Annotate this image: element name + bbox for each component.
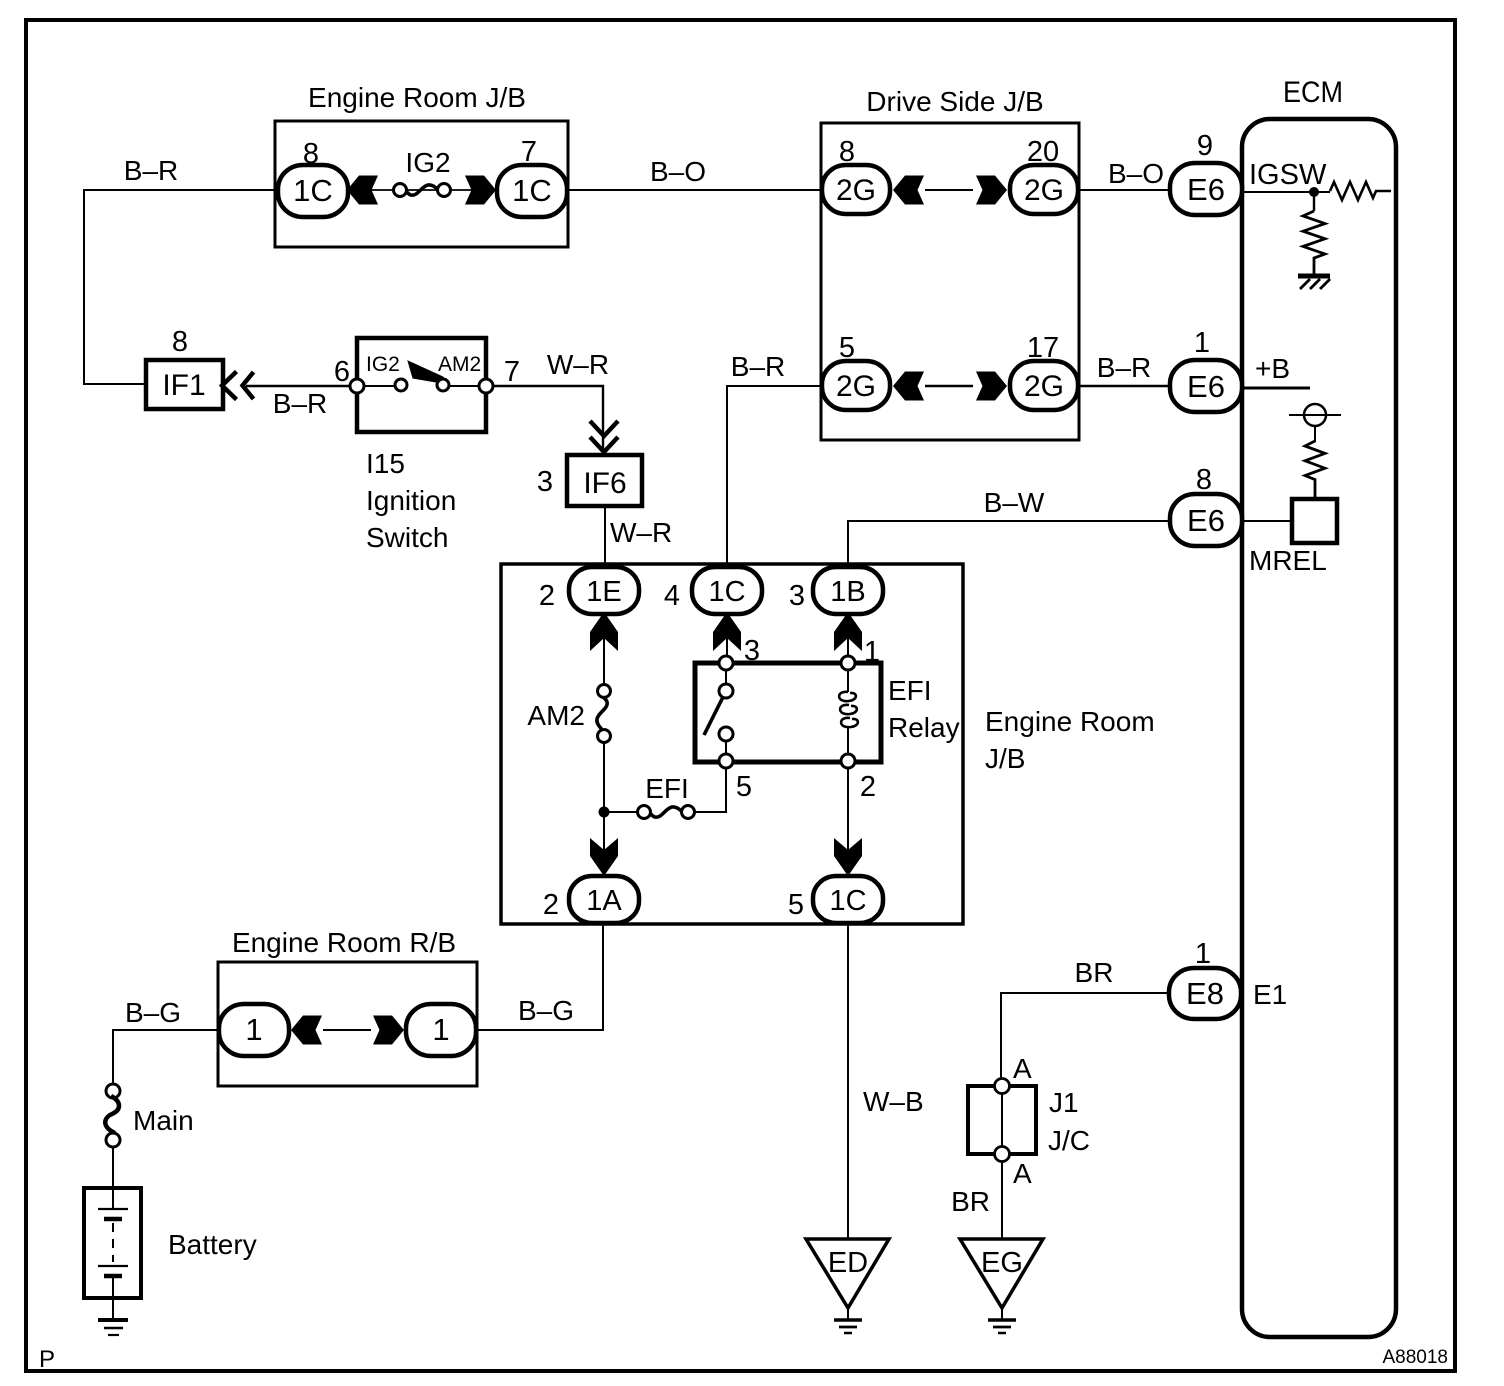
svg-text:1C: 1C bbox=[512, 173, 552, 208]
wire Main to battery bbox=[112, 1147, 114, 1188]
arrow up under 1C bbox=[713, 612, 741, 651]
svg-text:8: 8 bbox=[172, 326, 188, 358]
svg-text:Engine Room J/B: Engine Room J/B bbox=[308, 82, 526, 113]
svg-text:IF1: IF1 bbox=[162, 369, 205, 402]
ignition switch I15 box bbox=[357, 338, 486, 432]
svg-text:2: 2 bbox=[860, 771, 876, 803]
svg-text:5: 5 bbox=[788, 889, 804, 921]
Drive Side J/B box bbox=[821, 86, 1079, 440]
svg-text:8: 8 bbox=[839, 136, 855, 168]
battery bbox=[84, 1188, 257, 1298]
svg-text:E6: E6 bbox=[1187, 172, 1225, 207]
svg-text:EG: EG bbox=[981, 1247, 1023, 1279]
svg-text:1: 1 bbox=[864, 636, 880, 668]
MREL vertical resistor bbox=[1305, 426, 1325, 500]
ground hatched bbox=[1298, 276, 1330, 289]
relay pin 3 bbox=[719, 635, 760, 670]
svg-text:I15: I15 bbox=[366, 448, 405, 479]
corner label P bbox=[39, 1346, 55, 1373]
svg-text:Relay: Relay bbox=[888, 712, 960, 743]
connector oval 2G pin 5 bbox=[822, 332, 890, 410]
switch pin 7 bbox=[479, 356, 520, 393]
svg-text:MREL: MREL bbox=[1249, 545, 1327, 576]
wire W-B from 1C(5) to ED bbox=[848, 923, 924, 1238]
svg-text:+B: +B bbox=[1255, 353, 1290, 384]
wire B-R to E6(1) bbox=[1078, 352, 1172, 386]
svg-text:AM2: AM2 bbox=[527, 700, 585, 731]
svg-text:IG2: IG2 bbox=[405, 147, 450, 178]
svg-text:W–B: W–B bbox=[863, 1086, 924, 1117]
arrow up under 1E bbox=[590, 612, 618, 651]
svg-text:5: 5 bbox=[736, 771, 752, 803]
svg-text:IF6: IF6 bbox=[583, 467, 626, 500]
svg-text:1C: 1C bbox=[293, 173, 333, 208]
svg-text:1B: 1B bbox=[830, 576, 865, 608]
arrow right bbox=[465, 176, 496, 205]
connector IF6 pin 3 bbox=[537, 455, 642, 506]
arrow left bbox=[893, 176, 924, 205]
connector oval E6 pin 8 bbox=[1170, 464, 1242, 546]
connector oval 2G pin 8 bbox=[822, 136, 890, 214]
wire 1B down to relay pin 1 bbox=[847, 614, 849, 656]
svg-text:E1: E1 bbox=[1253, 979, 1287, 1010]
svg-text:Main: Main bbox=[133, 1105, 194, 1136]
connector oval 2G pin 20 bbox=[1010, 136, 1078, 214]
Engine Room J/B center box bbox=[501, 564, 1155, 924]
svg-text:1C: 1C bbox=[708, 576, 745, 608]
arrow left bbox=[291, 1016, 322, 1045]
svg-text:B–R: B–R bbox=[124, 155, 178, 186]
svg-text:2G: 2G bbox=[1024, 174, 1064, 207]
switch blade bbox=[408, 361, 447, 384]
connector oval 1A pin 2 bbox=[543, 876, 639, 923]
svg-text:3: 3 bbox=[537, 466, 553, 498]
Engine Room R/B box bbox=[218, 927, 477, 1086]
svg-text:A: A bbox=[1013, 1158, 1032, 1189]
svg-text:1E: 1E bbox=[586, 576, 621, 608]
svg-text:2: 2 bbox=[543, 889, 559, 921]
E1 label bbox=[1253, 979, 1287, 1010]
wire W-R below IF6 bbox=[605, 505, 672, 566]
svg-text:Ignition: Ignition bbox=[366, 485, 456, 516]
svg-text:ECM: ECM bbox=[1283, 76, 1343, 109]
connector oval 2G pin 17 bbox=[1010, 332, 1078, 410]
svg-text:6: 6 bbox=[334, 356, 350, 388]
svg-text:Battery: Battery bbox=[168, 1229, 257, 1260]
svg-text:W–R: W–R bbox=[610, 517, 672, 548]
battery ground bbox=[98, 1298, 128, 1335]
wire between arrows bottom bbox=[925, 385, 973, 387]
wire pin5 to EFI fuse bbox=[695, 768, 726, 812]
ground triangle EG bbox=[960, 1239, 1043, 1333]
arrow right bbox=[976, 176, 1007, 205]
svg-text:B–R: B–R bbox=[1097, 352, 1151, 383]
svg-text:B–O: B–O bbox=[650, 156, 706, 187]
wire between arrows top bbox=[925, 189, 973, 191]
svg-text:W–R: W–R bbox=[547, 349, 609, 380]
MREL driver box bbox=[1292, 499, 1337, 543]
relay pin 5 bbox=[719, 754, 752, 803]
IGSW label bbox=[1249, 159, 1327, 191]
wire B-W bbox=[848, 487, 1170, 564]
svg-text:A88018: A88018 bbox=[1382, 1347, 1448, 1368]
svg-text:9: 9 bbox=[1197, 130, 1213, 162]
IG2 contact bbox=[364, 353, 407, 391]
label B-R bbox=[124, 155, 178, 186]
relay coil bbox=[839, 670, 858, 754]
svg-text:J/B: J/B bbox=[985, 743, 1025, 774]
svg-text:8: 8 bbox=[303, 138, 319, 170]
svg-text:E6: E6 bbox=[1187, 503, 1225, 538]
svg-text:7: 7 bbox=[504, 356, 520, 388]
svg-text:1: 1 bbox=[1194, 327, 1210, 359]
relay switch contact top bbox=[719, 670, 733, 698]
svg-text:ED: ED bbox=[828, 1247, 868, 1279]
svg-text:IGSW: IGSW bbox=[1249, 159, 1327, 191]
AM2 contact bbox=[437, 353, 481, 391]
MREL label bbox=[1249, 545, 1327, 576]
wire 1C(4) down to relay pin 3 bbox=[726, 614, 728, 656]
wire W-R bbox=[493, 349, 609, 455]
svg-text:2G: 2G bbox=[836, 370, 876, 403]
svg-text:EFI: EFI bbox=[645, 773, 689, 804]
svg-text:3: 3 bbox=[789, 580, 805, 612]
arrow left bottom bbox=[893, 372, 924, 401]
wire B-G right bbox=[477, 924, 603, 1030]
svg-text:B–R: B–R bbox=[273, 388, 327, 419]
wire junction to EFI fuse bbox=[604, 811, 637, 813]
svg-text:B–R: B–R bbox=[731, 351, 785, 382]
svg-text:5: 5 bbox=[839, 332, 855, 364]
svg-text:B–O: B–O bbox=[1108, 158, 1164, 189]
svg-text:1A: 1A bbox=[586, 885, 622, 917]
arrow left bbox=[347, 176, 378, 205]
connector oval 1 right bbox=[406, 1004, 476, 1056]
wire E6(8) to MREL box bbox=[1242, 520, 1292, 522]
chevrons left bbox=[222, 372, 254, 400]
label I15 Ignition Switch bbox=[366, 448, 456, 553]
svg-text:EFI: EFI bbox=[888, 675, 932, 706]
svg-text:1C: 1C bbox=[829, 885, 866, 917]
svg-text:B–G: B–G bbox=[125, 997, 181, 1028]
svg-text:2: 2 bbox=[539, 580, 555, 612]
relay switch blade bbox=[704, 697, 723, 735]
svg-text:B–G: B–G bbox=[518, 995, 574, 1026]
wire B-G left bbox=[113, 997, 218, 1084]
wire B-R up from 1C(4) bbox=[727, 351, 822, 564]
connector IF1 pin 8 bbox=[146, 326, 223, 409]
MREL switch circle bbox=[1289, 404, 1341, 426]
EFI relay box bbox=[695, 663, 960, 762]
arrow up under 1B bbox=[834, 612, 862, 651]
connector oval 1C pin 4 bbox=[664, 567, 762, 614]
connector oval E6 pin 9 bbox=[1170, 130, 1242, 215]
wire BR from E8 bbox=[1001, 957, 1169, 1078]
fuse EFI bbox=[638, 773, 695, 819]
svg-text:20: 20 bbox=[1027, 136, 1059, 168]
svg-text:Drive Side J/B: Drive Side J/B bbox=[866, 86, 1043, 117]
svg-text:BR: BR bbox=[951, 1186, 990, 1217]
connector oval 1C pin 5 bbox=[788, 876, 883, 923]
relay switch contact bottom bbox=[719, 727, 733, 753]
svg-text:7: 7 bbox=[521, 136, 537, 168]
wire relay pin2 down bbox=[847, 768, 849, 876]
wire B-O to E6 bbox=[1078, 158, 1172, 190]
resistor horizontal bbox=[1330, 182, 1391, 200]
svg-text:8: 8 bbox=[1196, 464, 1212, 496]
junction dot bbox=[599, 807, 610, 818]
relay pin 2 bbox=[841, 754, 876, 803]
+B label and wire bbox=[1242, 353, 1310, 388]
switch pin 6 bbox=[334, 356, 364, 393]
chevrons down bbox=[590, 421, 618, 452]
connector oval 1 left bbox=[219, 1004, 289, 1056]
connector oval 1B pin 3 bbox=[789, 567, 883, 614]
wire BR to EG bbox=[951, 1161, 1002, 1238]
svg-text:Engine Room: Engine Room bbox=[985, 706, 1155, 737]
wire through IG2 fuse bbox=[371, 189, 473, 191]
ECM body bbox=[1242, 76, 1396, 1337]
junction connector J1 J/C bbox=[968, 1053, 1090, 1189]
svg-text:1: 1 bbox=[1195, 938, 1211, 970]
wire B-R to switch bbox=[246, 386, 357, 419]
wire B-O bbox=[568, 156, 822, 190]
svg-text:P: P bbox=[39, 1346, 55, 1373]
svg-text:Switch: Switch bbox=[366, 522, 448, 553]
svg-text:J/C: J/C bbox=[1048, 1125, 1090, 1156]
svg-text:2G: 2G bbox=[1024, 370, 1064, 403]
fusible link Main bbox=[105, 1084, 193, 1147]
IGSW internal wire bbox=[1242, 191, 1330, 193]
connector oval 1C pin 7 bbox=[497, 136, 567, 217]
svg-text:3: 3 bbox=[744, 635, 760, 667]
svg-text:Engine Room R/B: Engine Room R/B bbox=[232, 927, 456, 958]
ground triangle ED bbox=[806, 1239, 889, 1333]
connector oval 1E pin 2 bbox=[539, 567, 639, 614]
wire between arrows bbox=[323, 1029, 371, 1031]
arrow right bbox=[373, 1016, 404, 1045]
svg-text:17: 17 bbox=[1027, 332, 1059, 364]
svg-text:BR: BR bbox=[1075, 957, 1114, 988]
wire B-R from 1C(8) left and down to IF1 bbox=[84, 190, 277, 384]
svg-text:E8: E8 bbox=[1186, 976, 1224, 1011]
svg-text:AM2: AM2 bbox=[438, 353, 481, 376]
connector oval E8 pin 1 bbox=[1169, 938, 1241, 1019]
wire 1E down bbox=[603, 614, 605, 691]
svg-text:2G: 2G bbox=[836, 174, 876, 207]
node dot bbox=[1309, 187, 1319, 197]
wire AM2 to junction to 1A bbox=[603, 742, 605, 874]
svg-text:1: 1 bbox=[245, 1012, 262, 1047]
arrow right bottom bbox=[976, 372, 1007, 401]
resistor vertical to ground bbox=[1303, 192, 1325, 276]
corner label A88018 bbox=[1382, 1347, 1448, 1368]
arrow down above 1C bbox=[834, 838, 862, 876]
fuse AM2 bbox=[527, 685, 610, 743]
svg-text:1: 1 bbox=[432, 1012, 449, 1047]
svg-text:IG2: IG2 bbox=[366, 353, 400, 376]
svg-text:E6: E6 bbox=[1187, 369, 1225, 404]
arrow down above 1A bbox=[590, 838, 618, 876]
relay pin 1 bbox=[841, 636, 880, 670]
fuse IG2 bbox=[394, 147, 451, 197]
connector oval E6 pin 1 bbox=[1170, 327, 1242, 412]
svg-text:A: A bbox=[1013, 1053, 1032, 1084]
svg-text:4: 4 bbox=[664, 580, 680, 612]
svg-text:J1: J1 bbox=[1049, 1087, 1079, 1118]
svg-text:B–W: B–W bbox=[984, 487, 1045, 518]
connector oval 1C pin 8 bbox=[278, 138, 348, 217]
Engine Room J/B box bbox=[275, 82, 568, 247]
